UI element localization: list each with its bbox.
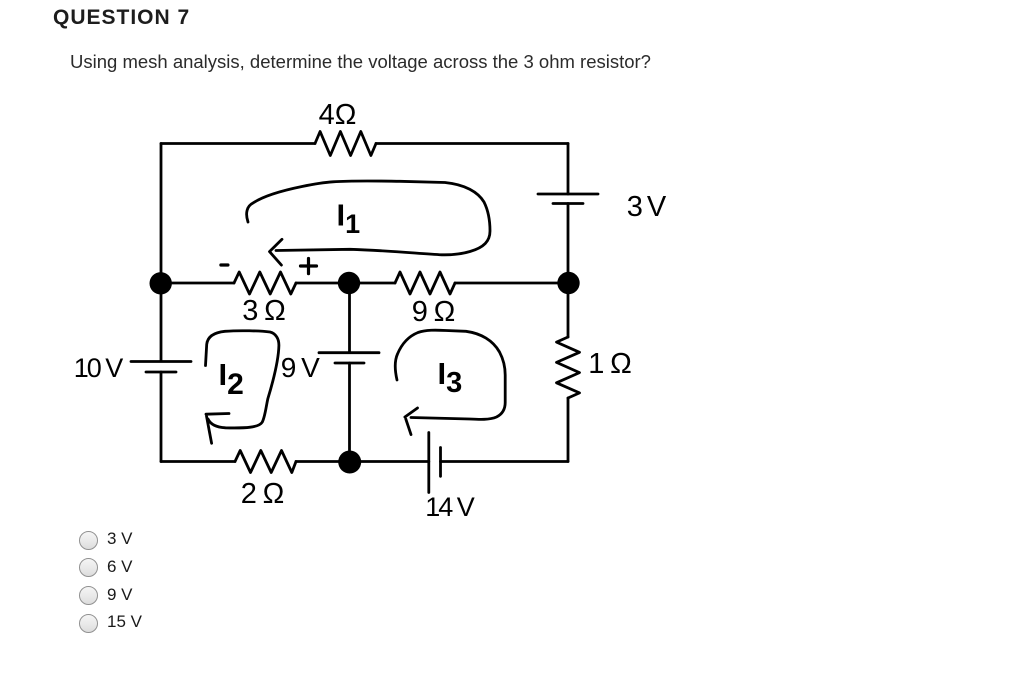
answer option 9 V <box>79 586 479 605</box>
resistor 4ohm (top rail) <box>315 132 376 156</box>
resistor 3ohm (middle rail) <box>234 272 296 294</box>
wire: bottom rail right segment <box>441 460 569 463</box>
wire: top rail left segment <box>161 142 315 145</box>
mesh loop I2 curve <box>206 331 279 428</box>
answer option 3 V <box>79 530 479 549</box>
svg-text:3 V: 3 V <box>627 191 667 223</box>
answer option 15 V <box>79 613 479 632</box>
resistor 9ohm (middle rail) <box>395 272 455 294</box>
wire: bottom rail node D to 14V battery <box>350 460 429 463</box>
battery 14V long plate <box>427 433 430 493</box>
wire: middle rail 9ohm to node C <box>455 282 568 285</box>
wire: right rail below 1ohm <box>567 398 570 462</box>
wire: top rail right segment <box>376 142 568 145</box>
wire: middle rail node B to 9ohm <box>349 282 395 285</box>
polarity minus (3ohm left) <box>221 263 228 266</box>
wire: center branch node B to 9V battery <box>348 283 351 353</box>
wire: left rail upper <box>160 144 163 362</box>
node A junction dot <box>150 272 172 294</box>
battery 3V short plate <box>553 202 583 205</box>
wire: right rail 3V to node C <box>567 204 570 284</box>
svg-text:4Ω: 4Ω <box>319 99 357 131</box>
node C junction dot <box>557 272 579 294</box>
mesh loop I2 arrowhead <box>206 414 229 444</box>
mesh loop I1 arrowhead <box>270 239 283 265</box>
wire: middle rail 3ohm to node B <box>296 282 349 285</box>
mesh loop I3 curve <box>395 330 505 419</box>
wire: right rail node C to 1ohm <box>567 283 570 337</box>
svg-text:I2: I2 <box>219 357 244 401</box>
resistor 1ohm (right rail, vertical) <box>557 337 580 398</box>
svg-text:2 Ω: 2 Ω <box>241 478 285 510</box>
wire: left rail lower <box>160 372 163 462</box>
svg-text:3 Ω: 3 Ω <box>242 295 286 327</box>
resistor 2ohm (bottom rail) <box>235 451 296 473</box>
wire: right rail top to 3V battery <box>567 144 570 195</box>
battery 10V long plate <box>131 360 191 363</box>
battery 3V long plate <box>538 193 598 196</box>
answer option 6 V <box>79 558 479 577</box>
svg-text:10 V: 10 V <box>74 353 124 383</box>
polarity plus (3ohm right) <box>301 259 317 274</box>
wire: middle rail node A to 3ohm <box>161 282 234 285</box>
node D junction dot <box>338 451 361 474</box>
svg-text:9 V: 9 V <box>281 352 320 383</box>
mesh loop I1 curve <box>247 181 490 255</box>
wire: center branch 9V to node D <box>348 363 351 462</box>
battery 10V short plate <box>146 371 176 374</box>
svg-text:14 V: 14 V <box>425 492 475 522</box>
wire: bottom rail left segment <box>161 460 235 463</box>
wire: bottom rail 2ohm to node D <box>296 460 350 463</box>
svg-text:I3: I3 <box>438 356 463 399</box>
svg-text:9 Ω: 9 Ω <box>412 296 456 328</box>
mesh loop I3 arrowhead <box>405 408 418 435</box>
svg-text:1 Ω: 1 Ω <box>588 348 632 380</box>
battery 9V long plate <box>319 351 379 354</box>
node B junction dot <box>338 272 360 294</box>
svg-text:I1: I1 <box>337 198 361 240</box>
battery 14V short plate <box>439 448 442 477</box>
battery 9V short plate <box>335 362 364 365</box>
